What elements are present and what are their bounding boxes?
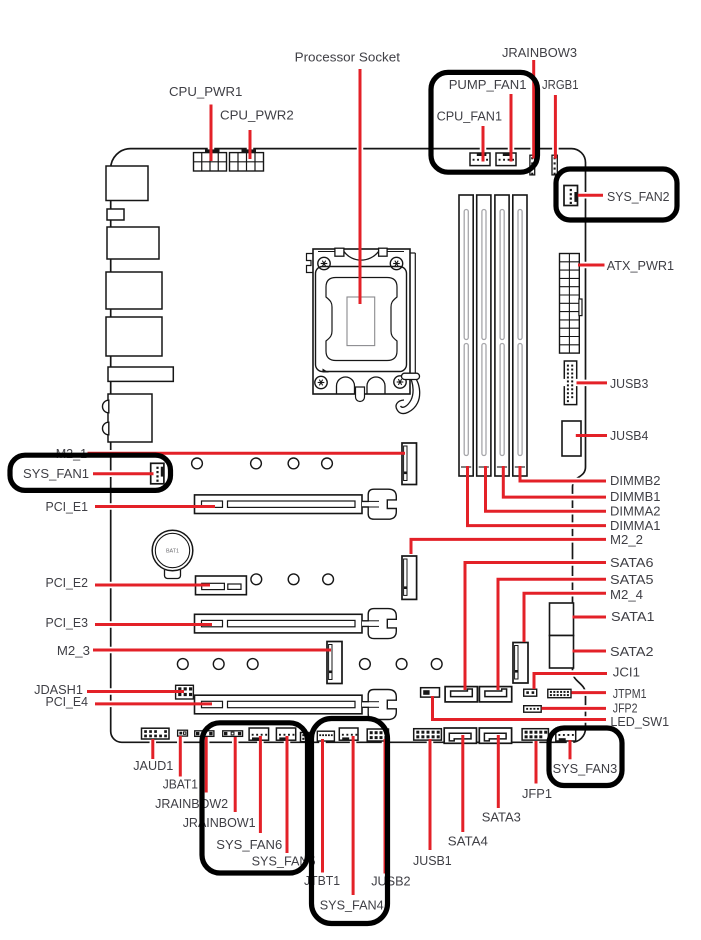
connector JRAINBOW3 xyxy=(530,155,535,175)
connector CPU_FAN1 xyxy=(470,153,490,166)
leader line M2_4 xyxy=(524,593,606,642)
leader line SYS_FAN6 xyxy=(259,736,262,833)
connector JFP2 xyxy=(524,706,542,713)
leader line SYS_FAN3 xyxy=(569,740,572,759)
board outline xyxy=(111,149,586,743)
svg-text:SYS_FAN6: SYS_FAN6 xyxy=(216,837,282,852)
SATA port SATA1 xyxy=(550,603,574,636)
leader line PCI_E4 xyxy=(95,702,212,705)
leader line DIMMA1 xyxy=(468,466,607,526)
mounting holes xyxy=(177,458,442,669)
highlight SYS_FAN1 xyxy=(10,455,171,490)
svg-text:JAUD1: JAUD1 xyxy=(133,758,173,773)
M.2 connector M2_1 xyxy=(402,443,417,485)
svg-text:JRAINBOW2: JRAINBOW2 xyxy=(155,796,228,811)
DIMM slot 2 xyxy=(477,195,491,476)
connector JFP1 xyxy=(522,729,548,740)
connector CPU_PWR2 xyxy=(230,149,264,171)
rear I/O small block xyxy=(107,209,124,220)
leader line JTBT1 xyxy=(321,739,324,873)
svg-text:LED_SW1: LED_SW1 xyxy=(610,714,669,729)
leader line M2_1 xyxy=(88,452,406,455)
svg-text:SATA1: SATA1 xyxy=(611,609,655,624)
leader line JFP2 xyxy=(542,707,607,710)
svg-text:JUSB3: JUSB3 xyxy=(610,376,648,391)
SATA port SATA3 xyxy=(479,728,511,743)
rear I/O block USB top xyxy=(106,166,148,201)
leader line PUMP_FAN1 xyxy=(510,94,513,162)
svg-text:JUSB4: JUSB4 xyxy=(610,428,648,443)
leader line DIMMB1 xyxy=(503,466,606,497)
connector SYS_FAN2 xyxy=(564,186,578,206)
M.2 connector M2_4 xyxy=(513,643,528,684)
leader line CPU_PWR1 xyxy=(210,105,213,162)
rear I/O block USB lower xyxy=(106,317,162,356)
leader line CPU_FAN1 xyxy=(482,126,485,162)
leader line SATA2 xyxy=(573,650,607,653)
leader line JTPM1 xyxy=(572,691,607,694)
SATA port SATA4 xyxy=(444,728,476,743)
leader line SYS_FAN5 xyxy=(286,736,289,853)
leader line JAUD1 xyxy=(151,739,154,759)
connector CPU_PWR1 xyxy=(194,149,227,171)
connector JRAINBOW2 xyxy=(195,731,214,737)
leader line JUSB3 xyxy=(577,381,608,384)
SATA port SATA6 xyxy=(445,687,477,702)
svg-text:JFP1: JFP1 xyxy=(522,786,552,801)
connector JTBT1 xyxy=(317,731,334,741)
connector JUSB3 xyxy=(563,361,579,405)
leader line JRAINBOW3 xyxy=(532,60,535,159)
battery BAT1 xyxy=(152,530,193,578)
highlight SYS_FAN2 xyxy=(556,169,677,220)
leader line LED_SW1 xyxy=(433,696,607,720)
leader line SYS_FAN2 xyxy=(578,194,603,197)
PCIe slot PCI_E2 xyxy=(196,576,247,595)
leader line M2_3 xyxy=(93,649,331,652)
connector PUMP_FAN1 xyxy=(496,153,516,166)
svg-text:SATA6: SATA6 xyxy=(610,555,654,570)
connector SYS_FAN6 xyxy=(249,728,269,740)
DIMM slot 3 xyxy=(495,195,509,476)
leader line JBAT1 xyxy=(179,736,182,777)
M.2 connector M2_3 xyxy=(327,642,342,684)
connector JCI1 xyxy=(524,689,537,696)
leader line SATA4 xyxy=(461,735,464,832)
leader line DIMMB2 xyxy=(520,466,606,481)
svg-text:M2_2: M2_2 xyxy=(610,532,643,547)
rear I/O thin block DP/HDMI xyxy=(108,367,173,381)
leader line JDASH1 xyxy=(87,690,184,693)
connector JDASH1 xyxy=(176,685,194,699)
svg-text:M2_4: M2_4 xyxy=(610,587,643,602)
svg-text:Processor Socket: Processor Socket xyxy=(295,50,401,65)
svg-text:BAT1: BAT1 xyxy=(166,549,179,555)
leader line JFP1 xyxy=(535,741,538,784)
highlight SYS_FAN3 xyxy=(549,728,622,786)
connector JUSB1 xyxy=(414,729,442,740)
svg-text:DIMMB2: DIMMB2 xyxy=(610,473,661,488)
leader line SYS_FAN4 xyxy=(352,736,355,895)
highlight PUMP_FAN1/CPU_FAN1 xyxy=(431,72,538,172)
svg-text:PCI_E2: PCI_E2 xyxy=(46,575,89,590)
DIMM slot 1 xyxy=(459,195,473,476)
highlight SYS_FAN6/SYS_FAN5 xyxy=(202,723,308,873)
svg-text:JRAINBOW3: JRAINBOW3 xyxy=(502,45,577,60)
leader white gaps xyxy=(87,60,607,895)
leader line JUSB2 xyxy=(384,739,387,874)
leader line JRAINBOW2 xyxy=(205,737,208,793)
svg-text:PUMP_FAN1: PUMP_FAN1 xyxy=(449,77,527,92)
CPU socket xyxy=(307,248,420,413)
connector JTPM1 xyxy=(548,689,571,697)
svg-text:PCI_E4: PCI_E4 xyxy=(46,694,89,709)
leader line Processor Socket xyxy=(359,69,362,304)
leader line JUSB4 xyxy=(576,434,607,437)
leader line M2_2 xyxy=(411,539,606,554)
connector JRAINBOW1 xyxy=(223,731,243,737)
leader line JRAINBOW1 xyxy=(234,737,237,812)
connector JBAT1 xyxy=(178,730,188,736)
svg-text:ATX_PWR1: ATX_PWR1 xyxy=(607,258,674,273)
leader line SATA3 xyxy=(497,735,500,808)
PCIe slot PCI_E4 xyxy=(195,690,397,720)
svg-text:JUSB2: JUSB2 xyxy=(371,874,410,889)
PCIe slot PCI_E3 xyxy=(195,609,397,639)
svg-text:SYS_FAN4: SYS_FAN4 xyxy=(320,898,384,913)
rear I/O block USB mid xyxy=(106,272,162,309)
svg-text:JRGB1: JRGB1 xyxy=(542,77,579,92)
svg-text:DIMMA1: DIMMA1 xyxy=(610,518,661,533)
connector JUSB4 xyxy=(562,421,581,456)
svg-text:SATA3: SATA3 xyxy=(482,810,521,825)
svg-text:JCI1: JCI1 xyxy=(613,665,640,680)
connector SYS_FAN5 xyxy=(276,728,295,740)
leader line PCI_E1 xyxy=(95,505,215,508)
leader line JCI1 xyxy=(534,674,607,690)
connector ATX_PWR1 xyxy=(560,254,583,354)
leader line SYS_FAN1 xyxy=(93,472,154,475)
connector LED_SW1 xyxy=(421,688,440,697)
leader line JRGB1 xyxy=(554,95,557,159)
rear I/O block LAN/USB xyxy=(107,227,159,259)
svg-text:SYS_FAN1: SYS_FAN1 xyxy=(23,466,89,481)
svg-text:JBAT1: JBAT1 xyxy=(163,777,198,792)
PCIe slot PCI_E1 xyxy=(195,489,397,519)
leader line JUSB1 xyxy=(429,739,432,850)
svg-text:SATA5: SATA5 xyxy=(610,572,654,587)
svg-text:CPU_PWR2: CPU_PWR2 xyxy=(220,108,294,123)
leader line SATA1 xyxy=(573,616,607,619)
leader line SATA5 xyxy=(498,579,606,690)
M.2 connector M2_2 xyxy=(402,556,417,599)
SATA port SATA2 xyxy=(550,636,574,669)
leader line PCI_E3 xyxy=(95,623,212,626)
svg-text:SYS_FAN2: SYS_FAN2 xyxy=(607,189,670,204)
connector SYS_FAN4 xyxy=(339,728,358,740)
rear I/O audio block xyxy=(102,394,152,442)
svg-text:PCI_E1: PCI_E1 xyxy=(46,499,89,514)
leader line SATA6 xyxy=(465,563,606,691)
svg-text:SYS_FAN3: SYS_FAN3 xyxy=(553,761,618,776)
connector SYS_FAN1 xyxy=(151,463,164,484)
highlight SYS_FAN4 xyxy=(312,719,388,924)
svg-text:M2_3: M2_3 xyxy=(57,643,90,658)
svg-text:JTPM1: JTPM1 xyxy=(613,686,647,701)
svg-text:DIMMA2: DIMMA2 xyxy=(610,504,661,519)
SATA port SATA5 xyxy=(479,687,511,702)
connector JUSB2 xyxy=(367,729,388,741)
svg-text:PCI_E3: PCI_E3 xyxy=(46,615,89,630)
svg-text:JRAINBOW1: JRAINBOW1 xyxy=(183,815,256,830)
connector SYS_FAN3 xyxy=(556,728,576,741)
svg-text:JUSB1: JUSB1 xyxy=(413,853,452,868)
leader line ATX_PWR1 xyxy=(578,264,605,267)
svg-text:SATA2: SATA2 xyxy=(610,644,654,659)
leader line DIMMA2 xyxy=(486,466,607,511)
svg-text:SATA4: SATA4 xyxy=(448,834,488,849)
connector JAUD1 xyxy=(142,728,170,739)
leader line CPU_PWR2 xyxy=(249,130,252,159)
svg-text:CPU_FAN1: CPU_FAN1 xyxy=(437,109,502,124)
DIMM slot 4 xyxy=(513,195,527,476)
svg-text:DIMMB1: DIMMB1 xyxy=(610,489,661,504)
connector JRGB1 xyxy=(552,155,557,175)
svg-text:CPU_PWR1: CPU_PWR1 xyxy=(169,84,242,99)
leader line PCI_E2 xyxy=(95,584,210,587)
connector J4pin xyxy=(301,733,310,742)
